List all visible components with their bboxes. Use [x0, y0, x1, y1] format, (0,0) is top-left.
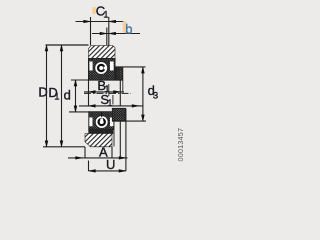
extension line d top — [71, 79, 89, 81]
dimension U line — [89, 170, 126, 173]
seal gap right upper — [110, 62, 114, 71]
dimension S1 line — [79, 105, 143, 108]
dimension d3 line — [142, 67, 145, 121]
extension line collar x=120 upper — [119, 80, 121, 106]
dimension B1 line — [84, 91, 124, 94]
extension line flange right x=125.5 — [125, 108, 127, 171]
bearing rings upper (dense section) — [89, 59, 116, 81]
extension line d bottom — [69, 111, 89, 113]
extension line bottom (D/D1) — [43, 146, 85, 148]
extension line b left — [106, 28, 108, 46]
dimension C1 line — [76, 20, 124, 23]
dimension D line — [45, 45, 48, 147]
extension line housing right x=111.5 — [111, 147, 113, 158]
ball upper — [95, 62, 108, 75]
collar upper — [116, 67, 123, 80]
extension line C1 right / b right — [108, 17, 110, 46]
extension line d3 bottom — [112, 120, 146, 122]
extension line collar right x=122.7 — [122, 80, 124, 92]
extension line B1 left (x=88 below part) — [88, 80, 90, 106]
bearing rings lower (dense section) — [89, 112, 114, 130]
extension line A left x=84.5 — [84, 147, 86, 158]
label D1 — [48, 85, 59, 102]
housing inner wall line lower — [113, 121, 115, 147]
outer band lower (dense) — [89, 130, 113, 134]
dimension b line — [92, 32, 140, 35]
extension line C1 left — [90, 17, 92, 46]
extension line collar x=120 lower — [119, 121, 121, 158]
extension line d3 top — [116, 66, 146, 68]
bore line lower — [88, 111, 112, 113]
housing upper band (hatched) — [89, 46, 116, 59]
ball lower — [95, 116, 108, 129]
housing lower band (hatched) — [85, 134, 112, 147]
highlight fragment C1 — [92, 7, 96, 14]
centerline axis — [84, 92, 131, 94]
svg-text:b: b — [125, 21, 132, 36]
dimension A line — [68, 157, 128, 160]
label C1 — [96, 4, 109, 21]
set screw line lower — [101, 112, 103, 118]
seal gap left lower — [89, 118, 92, 127]
seal gap right lower — [110, 118, 113, 127]
svg-text:3: 3 — [153, 90, 158, 101]
label S1 — [100, 92, 112, 109]
label B1 — [97, 78, 109, 95]
bore line upper — [88, 79, 123, 81]
extension line inner ring face x=109 — [108, 84, 110, 96]
extension line top (D/D1) — [46, 44, 89, 46]
label d3 — [148, 83, 159, 101]
svg-text:1: 1 — [54, 91, 59, 102]
highlight strip b — [123, 22, 127, 34]
flange plate lower (dense) — [112, 108, 125, 121]
dimension D1 line — [60, 45, 63, 147]
svg-text:U: U — [106, 157, 115, 172]
svg-text:D: D — [38, 84, 47, 99]
svg-text:1: 1 — [107, 98, 112, 109]
extension line U left x=88 — [88, 161, 90, 172]
dimension d line — [74, 80, 77, 112]
svg-text:1: 1 — [103, 10, 108, 21]
seal gap left upper — [89, 62, 92, 71]
svg-text:d: d — [64, 88, 71, 103]
svg-text:00013457: 00013457 — [176, 128, 185, 162]
S1 tick — [112, 95, 114, 105]
